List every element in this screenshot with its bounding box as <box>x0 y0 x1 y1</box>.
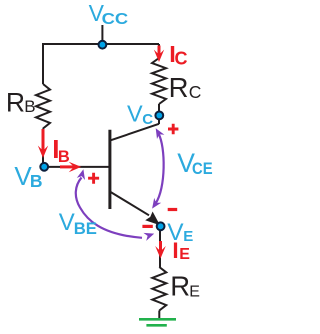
svg-text:E: E <box>189 283 200 300</box>
svg-text:B: B <box>24 97 35 116</box>
svg-text:C: C <box>175 49 188 69</box>
svg-text:C: C <box>142 111 153 128</box>
svg-text:R: R <box>6 88 25 118</box>
svg-text:B: B <box>30 171 43 191</box>
svg-text:V: V <box>59 209 75 236</box>
svg-text:BE: BE <box>74 219 97 238</box>
svg-text:R: R <box>169 72 189 103</box>
svg-text:R: R <box>170 271 190 302</box>
svg-text:E: E <box>183 228 193 245</box>
svg-text:V: V <box>127 101 143 127</box>
svg-text:I: I <box>172 238 178 263</box>
svg-text:E: E <box>179 246 190 263</box>
svg-text:CC: CC <box>102 11 129 28</box>
svg-text:C: C <box>189 82 202 102</box>
svg-text:CE: CE <box>192 159 213 178</box>
svg-text:B: B <box>58 148 70 166</box>
